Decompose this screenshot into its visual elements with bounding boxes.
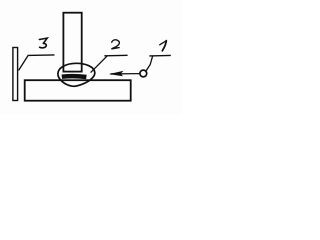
label 1 [160,41,167,51]
molten metal band inside pool [62,74,87,79]
leader line 3 [19,56,28,71]
base plate (workpiece) [25,80,131,101]
label 3 [39,38,47,48]
direction indicator circle [140,70,147,77]
electrode (vertical plate) [63,13,81,72]
shelf line of label 3 [28,54,55,57]
shelf line of label 1 [149,54,171,57]
weld pool oval [58,63,95,86]
shelf line of label 2 [104,54,127,57]
former bar 3 (thin vertical plate at left) [13,48,18,101]
leader line 1 [146,56,153,71]
arrow shaft [121,73,140,75]
label 2 [111,40,119,49]
arrowhead [109,71,124,77]
leader line 2 [91,56,108,73]
